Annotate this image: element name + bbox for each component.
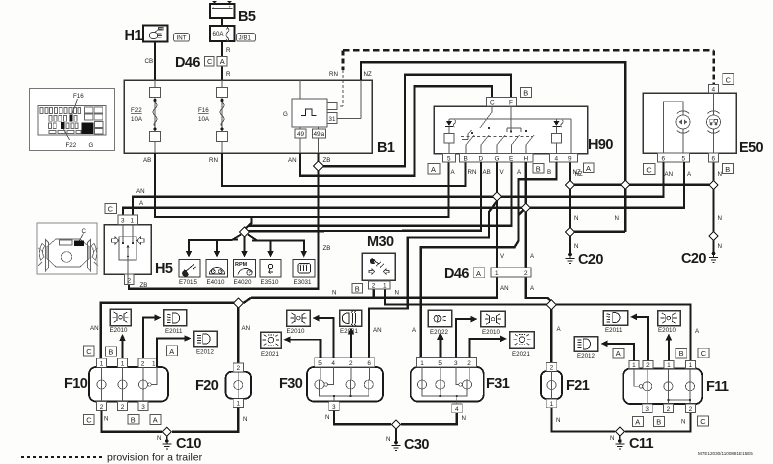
ground C11 (552, 408, 691, 452)
svg-text:N: N (681, 419, 685, 426)
svg-text:E2010: E2010 (482, 329, 500, 336)
svg-text:E2011: E2011 (165, 328, 183, 335)
H5 internals (112, 225, 145, 285)
junction diamond B x A (521, 203, 530, 212)
svg-text:B: B (536, 164, 541, 173)
svg-text:A: A (586, 164, 591, 173)
svg-text:F11: F11 (706, 379, 729, 395)
F10 lamps (97, 367, 157, 402)
svg-text:2: 2 (550, 365, 554, 372)
svg-text:E2010: E2010 (287, 328, 305, 335)
svg-text:D46: D46 (444, 266, 469, 282)
wire AN drop to F20 (237, 303, 239, 363)
cluster lamp turn indicator (664, 102, 691, 153)
svg-text:H90: H90 (588, 137, 613, 153)
component B1 fuse/relay box (124, 80, 372, 153)
svg-text:E4010: E4010 (207, 279, 225, 286)
wire AN bus: H5 pin1 to E50 pin6 (133, 162, 664, 225)
svg-text:4: 4 (555, 156, 559, 163)
svg-text:B: B (108, 348, 113, 357)
svg-text:AN: AN (242, 325, 251, 332)
svg-text:AN: AN (288, 157, 297, 164)
svg-text:A: A (431, 165, 436, 174)
icon box E2010 for F30 (287, 310, 334, 358)
svg-text:6: 6 (367, 360, 371, 367)
svg-text:2: 2 (372, 283, 376, 290)
svg-text:H: H (524, 156, 529, 163)
wire A: H90 pin E to fan jog (248, 162, 511, 226)
svg-text:R: R (226, 47, 231, 54)
svg-text:INT: INT (177, 34, 187, 41)
svg-text:10A: 10A (198, 116, 210, 123)
component F10 front left lamps (64, 346, 178, 425)
icon box E2010 for F31 (456, 311, 505, 357)
svg-text:31: 31 (329, 116, 336, 123)
fuse F22 inside B1 (131, 80, 161, 153)
svg-text:60A: 60A (213, 31, 225, 38)
svg-text:AB: AB (143, 157, 151, 164)
svg-text:E2011: E2011 (605, 327, 623, 334)
dashed legend: provision for a trailer (21, 452, 203, 464)
svg-text:G: G (89, 142, 94, 149)
icon box E2010 left (110, 309, 132, 358)
F11 letter boxes (613, 348, 624, 358)
svg-text:C: C (82, 228, 87, 235)
svg-text:provision for a trailer: provision for a trailer (107, 452, 203, 464)
svg-text:4: 4 (455, 406, 459, 413)
svg-text:3: 3 (121, 218, 125, 225)
svg-text:E3031: E3031 (294, 279, 312, 286)
svg-text:RN: RN (468, 169, 477, 176)
svg-text:B: B (679, 349, 684, 358)
svg-text:F16: F16 (73, 93, 84, 100)
svg-text:F22: F22 (66, 142, 77, 149)
svg-text:2: 2 (121, 404, 125, 411)
svg-text:B: B (464, 156, 468, 163)
svg-text:NZ: NZ (364, 71, 372, 78)
svg-text:1: 1 (689, 362, 693, 369)
H90 pin row (443, 154, 578, 163)
svg-text:C: C (86, 416, 92, 425)
svg-text:B: B (523, 89, 528, 98)
fusebox location illustration F16/F22/G (30, 89, 115, 151)
svg-text:E: E (509, 156, 513, 163)
svg-text:RPM: RPM (235, 262, 248, 268)
svg-text:N: N (462, 415, 466, 422)
svg-text:A: A (476, 269, 481, 278)
svg-text:E3510: E3510 (261, 279, 279, 286)
wire CB from H1 to B1 (154, 41, 156, 80)
svg-text:J/B1: J/B1 (239, 34, 252, 41)
component H5 turn signal stalk (104, 204, 173, 290)
svg-text:F: F (509, 99, 513, 106)
accessory icon E4010 (206, 260, 228, 286)
svg-text:2: 2 (100, 404, 104, 411)
svg-text:N: N (556, 417, 560, 424)
wire stub diamond to pin4 branch (518, 208, 525, 215)
junction diamond A bus split (546, 300, 556, 310)
wire A bus: H5 pin3 to E50 pin5 (123, 162, 684, 225)
svg-text:B: B (725, 165, 730, 174)
svg-text:M30: M30 (367, 234, 394, 250)
svg-text:RN: RN (329, 71, 338, 78)
svg-text:F30: F30 (279, 376, 303, 392)
svg-text:ZB: ZB (140, 282, 148, 289)
flasher relay G inside B1 (283, 80, 361, 153)
svg-text:N: N (386, 436, 390, 443)
component H90 hazard switch (428, 88, 613, 177)
junction diamond ZB split (314, 161, 324, 171)
svg-text:AB: AB (483, 169, 491, 176)
svg-text:C: C (207, 57, 213, 66)
wire B: H90 pin H to D46 pin2 (525, 162, 527, 268)
wire AN upper: fan jog to D46 pin1 (251, 277, 497, 298)
icon box E2021 left of F30 (261, 332, 321, 358)
svg-text:1: 1 (632, 362, 636, 369)
wire R from 60A fuse to B1 (221, 41, 223, 80)
svg-text:C20: C20 (578, 252, 603, 268)
wire AB jog into fan diamond (245, 217, 252, 229)
wire AB: B1 to H90 pin 5 bus (155, 153, 449, 217)
svg-text:RN: RN (209, 157, 218, 164)
junction diamond N x NZ right (709, 180, 718, 189)
svg-text:A: A (169, 347, 174, 356)
cluster lamp trailer indicator (707, 93, 721, 153)
svg-text:NZ: NZ (573, 169, 581, 176)
wire AN: B1 pin49 to H90 pin C (300, 86, 492, 175)
svg-text:1: 1 (237, 401, 241, 408)
svg-text:N: N (157, 435, 161, 442)
svg-text:6: 6 (712, 155, 716, 162)
steering column location illustration (37, 223, 98, 274)
svg-text:N: N (325, 414, 329, 421)
fuse F16 inside B1 (198, 80, 228, 153)
svg-text:3: 3 (454, 360, 458, 367)
svg-text:N: N (574, 243, 578, 250)
svg-text:+: + (229, 5, 232, 10)
component F31 rear right lamps (411, 358, 510, 414)
icon box E2012 left (157, 331, 217, 367)
svg-text:C30: C30 (404, 437, 429, 453)
F10 pin boxes bottom (97, 402, 107, 411)
svg-text:AN: AN (665, 171, 674, 178)
wire ZB: down to H5 pin2 (129, 166, 319, 289)
svg-text:F10: F10 (64, 376, 88, 392)
svg-text:1: 1 (550, 401, 554, 408)
fan-out arrows to accessory icons (189, 235, 304, 252)
H90 internals (449, 106, 571, 154)
svg-text:AN: AN (90, 325, 99, 332)
svg-text:E2012: E2012 (577, 353, 595, 360)
svg-text:N: N (395, 290, 399, 297)
svg-text:ZB: ZB (323, 245, 331, 252)
svg-text:1: 1 (131, 218, 135, 225)
svg-text:C: C (108, 205, 114, 214)
icon box E2021 for F31 (469, 332, 534, 359)
component E50 instrument cluster (643, 74, 764, 179)
svg-text:E4020: E4020 (234, 279, 252, 286)
icon box E2031 for F30 (340, 310, 362, 358)
svg-text:6: 6 (662, 155, 666, 162)
svg-text:N: N (574, 215, 578, 222)
accessory icon E3510 (260, 260, 281, 286)
svg-text:5: 5 (682, 155, 686, 162)
component M30 hazard switch lamp (332, 234, 399, 297)
wire V branch to F30 feed (369, 201, 497, 358)
svg-text:2: 2 (467, 360, 471, 367)
wire B: H90 pin4 branch to F31 feed (421, 162, 557, 358)
junction diamond N join C20 left (566, 227, 575, 236)
svg-text:N: N (610, 435, 614, 442)
wire AN lower: to F10 (101, 303, 244, 367)
svg-text:C10: C10 (176, 436, 201, 452)
wire NZ: pin31 to ground bus (361, 62, 625, 232)
wire RN: B1 to H90 pin B (222, 153, 466, 186)
junction diamond N x NZ mid (621, 180, 630, 189)
svg-text:1: 1 (420, 360, 424, 367)
svg-text:H1: H1 (125, 28, 143, 44)
component F30 rear left lamps (279, 358, 383, 421)
svg-text:B1: B1 (377, 140, 395, 156)
svg-text:1: 1 (495, 270, 499, 277)
svg-text:E2010: E2010 (658, 327, 676, 334)
accessory icon E3031 (293, 260, 315, 286)
wire battery to 60A fuse (221, 18, 223, 26)
svg-text:5: 5 (447, 156, 451, 163)
svg-text:F31: F31 (486, 376, 510, 392)
icon box E2012 for F11 (574, 337, 634, 361)
svg-text:C11: C11 (629, 436, 654, 452)
svg-text:B: B (656, 418, 661, 427)
svg-text:49a: 49a (314, 131, 325, 138)
svg-text:2: 2 (667, 406, 671, 413)
component F21 side repeater right (541, 363, 590, 425)
component H1 switch (125, 26, 168, 45)
svg-text:E50: E50 (739, 140, 764, 156)
wire AN jog down to lamp bus (244, 298, 252, 303)
svg-text:3: 3 (645, 406, 649, 413)
svg-text:1: 1 (667, 362, 671, 369)
wire E50 N to C20 right (712, 162, 714, 252)
icon box E2011 for F11 (603, 311, 648, 361)
svg-text:4: 4 (712, 87, 716, 94)
wire A: D46 pin2 down to A diamond (526, 277, 552, 304)
component B5 battery (210, 2, 235, 18)
svg-text:1: 1 (100, 361, 104, 368)
svg-text:B: B (547, 169, 551, 176)
LED left (444, 120, 456, 154)
icon box E2010 for F11 (658, 311, 681, 361)
svg-text:2: 2 (524, 270, 528, 277)
ground C20 left (566, 252, 604, 268)
H90 connector letter boxes (428, 164, 440, 175)
svg-text:D: D (479, 156, 484, 163)
wire ZB: B1 pin49a to H90 pin F (319, 75, 512, 167)
svg-text:N: N (615, 215, 619, 222)
svg-text:B: B (131, 415, 136, 424)
LED right (552, 120, 564, 154)
svg-text:E7015: E7015 (179, 279, 197, 286)
svg-text:3: 3 (141, 404, 145, 411)
wire H90 pin9 to ground C20 (569, 162, 571, 253)
icon box E2022 for F31 (428, 310, 452, 357)
svg-text:C: C (701, 349, 707, 358)
svg-text:R: R (226, 71, 231, 78)
svg-text:B: B (355, 284, 360, 293)
svg-text:H5: H5 (155, 261, 173, 277)
svg-text:2: 2 (237, 365, 241, 372)
svg-text:1: 1 (121, 361, 125, 368)
icon box E2011 left (143, 310, 187, 358)
ground C10 (102, 407, 239, 452)
svg-text:E2021: E2021 (512, 351, 530, 358)
wire A to F11 (551, 305, 690, 369)
svg-text:4: 4 (331, 360, 335, 367)
svg-text:E2021: E2021 (261, 351, 279, 358)
svg-text:D46: D46 (175, 55, 200, 71)
svg-text:2: 2 (141, 361, 145, 368)
svg-text:A: A (635, 418, 640, 427)
F10 letter boxes (84, 346, 95, 356)
accessory icon E7015 (179, 260, 200, 286)
component F11 front right lamps (613, 348, 729, 426)
ground C30 (334, 411, 457, 454)
svg-text:C: C (646, 165, 652, 174)
svg-text:C: C (726, 75, 732, 84)
svg-text:N: N (104, 416, 108, 423)
svg-text:1: 1 (383, 283, 387, 290)
svg-text:G: G (283, 111, 288, 118)
component F20 side repeater left (195, 363, 251, 423)
wire A lower: M30 pin1 to A diamond (385, 289, 551, 304)
svg-text:5: 5 (318, 360, 322, 367)
svg-text:C: C (86, 347, 92, 356)
wire AB: fan diamond to H90 pin D (247, 162, 481, 231)
svg-text:ZB: ZB (323, 157, 331, 164)
wire V: H90 pin G to D46 pin1 (496, 162, 498, 268)
svg-text:5: 5 (438, 360, 442, 367)
svg-text:C20: C20 (681, 251, 706, 267)
label J/B1 (237, 34, 256, 42)
svg-text:E2010: E2010 (110, 327, 128, 334)
dashed trailer wire RN (top) (338, 50, 714, 106)
svg-text:F21: F21 (566, 378, 590, 394)
connector D46-A mid (444, 253, 535, 292)
svg-text:E2012: E2012 (196, 349, 214, 356)
svg-text:A: A (153, 416, 158, 425)
svg-text:CB: CB (145, 58, 154, 65)
svg-text:N: N (718, 171, 722, 178)
svg-text:G: G (495, 156, 500, 163)
wire N bus between C20 drops (570, 184, 714, 186)
label INT (174, 34, 190, 42)
junction diamond AN bus step (233, 298, 243, 308)
svg-text:AN: AN (500, 285, 509, 292)
svg-text:M7E12030/1100881E15E5: M7E12030/1100881E15E5 (698, 451, 753, 456)
svg-text:2: 2 (689, 406, 693, 413)
svg-text:2: 2 (349, 360, 353, 367)
svg-text:AN: AN (136, 188, 145, 195)
svg-text:3: 3 (332, 404, 336, 411)
fuse 60A of B5 (210, 26, 235, 42)
svg-text:C: C (700, 417, 706, 426)
wire M30 pin2 to AN upper (373, 289, 375, 298)
ground C20 right (681, 251, 718, 267)
svg-text:N: N (718, 243, 722, 250)
svg-text:C: C (490, 99, 495, 106)
svg-text:10A: 10A (131, 116, 143, 123)
svg-text:AN: AN (373, 327, 382, 334)
svg-text:B5: B5 (238, 9, 256, 25)
svg-text:F20: F20 (195, 378, 219, 394)
wire A drop to F21 (550, 304, 552, 362)
svg-text:49: 49 (297, 131, 305, 138)
junction diamond AB fan-out (240, 227, 250, 237)
svg-text:A: A (220, 57, 225, 66)
svg-text:F22: F22 (131, 107, 142, 114)
junction diamond N x NZ left (566, 180, 575, 189)
junction diamond V x AN (493, 192, 502, 201)
F10 pin boxes top (97, 358, 107, 367)
E50 pin row (658, 153, 690, 162)
svg-text:9: 9 (568, 156, 572, 163)
svg-text:2: 2 (646, 362, 650, 369)
junction diamond N C20 right (709, 232, 718, 241)
svg-text:1: 1 (152, 361, 156, 368)
accessory icon E4020 (234, 260, 256, 286)
svg-text:N: N (718, 215, 722, 222)
svg-text:N: N (332, 290, 336, 297)
svg-text:F16: F16 (198, 107, 209, 114)
svg-text:N: N (243, 416, 247, 423)
wire NZ-N: C20 left link (570, 231, 625, 233)
svg-text:E2022: E2022 (430, 329, 448, 336)
